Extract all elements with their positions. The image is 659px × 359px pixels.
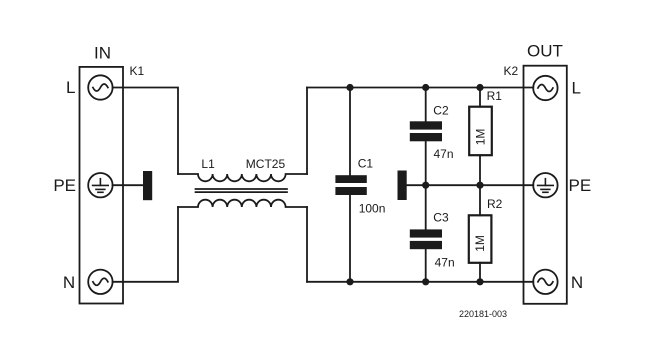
svg-text:1M: 1M [474,129,488,146]
svg-text:L: L [572,79,581,98]
svg-text:OUT: OUT [527,42,563,61]
svg-text:PE: PE [53,176,76,195]
capacitor C1 plates [335,175,366,183]
capacitor C3 leads [425,185,427,282]
wire top rail [307,87,533,89]
svg-text:K1: K1 [130,64,145,78]
inductor L1 top winding [178,174,307,181]
wire choke bottom to N rail [306,207,308,282]
junction dot bottom rail / R2 [476,278,483,285]
svg-text:L: L [66,78,75,97]
resistor R2 leads [479,185,481,282]
svg-text:N: N [571,273,583,292]
junction dot top rail / R1 [476,84,483,91]
resistor R2 body [469,215,492,262]
chassis terminal (PE rail) [398,171,407,201]
wire PE rail [407,184,534,186]
wire PE(in) to chassis [113,184,143,186]
wire choke top to L rail [306,88,308,175]
capacitor C2 plates [410,121,442,129]
connector K1 body [80,67,124,304]
svg-text:N: N [63,273,75,292]
svg-text:C3: C3 [433,211,449,225]
svg-text:47n: 47n [434,147,454,161]
terminal N of K1 [88,270,112,294]
svg-text:R1: R1 [487,89,503,103]
terminal PE of K2 [533,173,557,197]
inductor L1 bottom winding [178,200,307,207]
wire L(in) to choke top [113,88,178,175]
resistor R1 leads [479,88,481,186]
svg-text:L1: L1 [201,157,215,171]
resistor R1 body [469,107,492,156]
svg-text:C1: C1 [358,156,374,170]
junction dot bottom rail / C3 [422,278,429,285]
capacitor C1 leads [349,88,351,282]
junction dot top rail / C2 [422,84,429,91]
svg-text:K2: K2 [504,64,519,78]
junction dot PE rail / C2 C3 [422,182,429,189]
svg-text:47n: 47n [435,255,455,269]
capacitor C2 leads [425,88,427,186]
svg-text:1M: 1M [473,235,487,252]
junction dot bottom rail / C1 [346,278,353,285]
terminal L of K1 [88,75,112,99]
terminal PE of K1 [88,173,112,197]
svg-text:PE: PE [569,176,592,195]
svg-text:IN: IN [94,43,111,62]
svg-text:C2: C2 [433,103,449,117]
chassis terminal (IN side) [143,171,152,200]
wire N(in) to choke bottom [113,207,178,282]
terminal L of K2 [533,76,557,100]
capacitor C3 plates [410,229,442,237]
connector K2 body [524,66,567,304]
svg-text:100n: 100n [359,201,386,215]
wire bottom rail [307,281,533,283]
svg-text:R2: R2 [487,197,503,211]
terminal N of K2 [533,270,557,294]
junction dot top rail / C1 [346,84,353,91]
junction dot PE rail / R1 R2 [476,182,483,189]
inductor L1 core [196,189,288,192]
svg-text:220181-003: 220181-003 [459,309,507,319]
svg-text:MCT25: MCT25 [246,157,286,171]
